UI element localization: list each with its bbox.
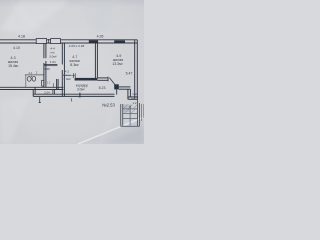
svg-text:1.2: 1.2 [132,101,136,105]
svg-text:3.0м²: 3.0м² [49,55,56,59]
svg-text:8.3м²: 8.3м² [70,63,79,67]
svg-text:4.18: 4.18 [18,34,25,38]
svg-text:жилая: жилая [113,58,123,62]
svg-text:№2.53: №2.53 [102,102,115,107]
svg-text:13.3м²: 13.3м² [112,62,123,66]
svg-text:1.10: 1.10 [132,92,138,96]
svg-text:3.0м²: 3.0м² [77,87,85,91]
svg-text:2.04: 2.04 [44,90,50,94]
svg-text:1.61: 1.61 [50,60,56,64]
svg-text:1.98: 1.98 [44,67,50,71]
svg-text:4-1: 4-1 [29,71,33,75]
svg-text:2.1м²: 2.1м² [128,97,135,101]
svg-text:жилая: жилая [8,60,18,64]
svg-text:7.3м²: 7.3м² [63,77,70,81]
svg-text:5.47: 5.47 [126,72,133,76]
svg-text:4.10: 4.10 [13,46,20,50]
svg-text:5.23: 5.23 [99,86,106,90]
svg-text:1.2: 1.2 [47,81,51,85]
svg-text:15.4м²: 15.4м² [8,64,19,68]
svg-text:4.35: 4.35 [97,34,104,38]
svg-text:2.05 ≥ 2.28: 2.05 ≥ 2.28 [69,44,85,48]
